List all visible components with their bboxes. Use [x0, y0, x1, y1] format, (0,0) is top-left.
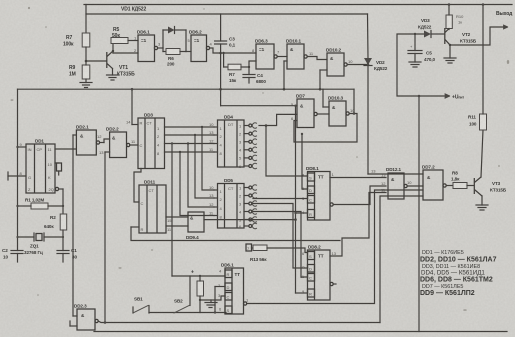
gate DD9.4 [188, 212, 204, 232]
counter DD11 [139, 185, 166, 233]
gate DD9.2 [191, 35, 207, 62]
resistor R10 on collector [446, 15, 452, 29]
DD4 input stubs [214, 126, 218, 128]
pin 9 input wire DD1 [18, 146, 27, 148]
wire: upper horizontal net from R7 top to VD2 column [86, 14, 368, 33]
node: VD2 cathode joins DD10.2 output net [367, 63, 370, 66]
node: VT1 collector to R5 and DD9.1 input [112, 50, 114, 52]
ground under VT2 emitter [444, 57, 456, 59]
gate DD7.2 [423, 170, 443, 200]
wire: DD11 C input from DD3 [134, 169, 141, 203]
node: rail to R7 post [85, 5, 87, 15]
DD11 output stubs to DD9.4 [166, 216, 188, 218]
wire: DD2.2 out to DD3 C [130, 144, 138, 146]
gate DD10.4 [388, 173, 404, 199]
node: C4 junction [248, 66, 250, 68]
flip-flop DD8.2 [308, 250, 331, 300]
wire: DD10.2 output to VD2 node [347, 64, 368, 66]
wire: long feedback net y=89.2 [18, 88, 355, 90]
diode VD3 [424, 31, 431, 38]
node: DD9.1 output split to VD1 and R6 [162, 30, 164, 48]
DD4 output hooks 0-5 [239, 123, 257, 169]
wire: vertical service net x172 [171, 144, 173, 277]
wire: DD8.1 D from DD4 row1 [302, 134, 308, 189]
wire: DD2.1 input1 from latch vertical [73, 134, 76, 136]
wire: button row [149, 312, 226, 314]
wire: DD11 R input and long bottom net [131, 226, 139, 228]
ground under VT1 emitter [107, 74, 119, 76]
gate DD2.3 [77, 309, 95, 330]
diode VD2 [367, 14, 370, 58]
wire: latch vertical x73 down to DD2.3 [72, 135, 74, 316]
wire: DD7.2 out through R8 [446, 185, 453, 187]
flip-flop DD6.1 [225, 268, 244, 314]
gate DD9.3 [256, 44, 274, 69]
quartz crystal ZQ1 [18, 236, 35, 238]
capacitor C4 [248, 67, 250, 75]
decoder DD5 [218, 184, 245, 229]
wire: DD8.2 D from DD5 [253, 204, 308, 269]
wire: DD8.1 R tap [296, 212, 308, 214]
resistor R12 [197, 281, 204, 296]
wire: DD7.1 in1 from C3 net [221, 105, 297, 107]
DD5 pin7 box and R13 [246, 244, 252, 251]
wire: DD9.4 output to reset net [204, 219, 296, 221]
wire: DD10.1 input 2 from feedback bus [284, 60, 287, 62]
capacitor C2 [17, 237, 19, 251]
DD1 inverted output bottom right [55, 187, 58, 190]
wire: DD3 output bus row4 [165, 151, 215, 153]
wire: C3 node down to DD4 strobe [220, 53, 222, 106]
wire: DD10.3 in1 from feedback bus [322, 89, 324, 107]
ground under VT3 [476, 204, 488, 206]
gate DD10.1 [287, 44, 304, 69]
node and drop wire to DD5 row1 [201, 126, 203, 128]
wire: DD1 pin11 output to DD2.1 [55, 148, 76, 150]
wire: DD7.1 out to DD10.3 [317, 113, 329, 115]
+U arrow terminal [444, 94, 450, 98]
wire: right vertical rail [418, 96, 420, 332]
resistor R9 [82, 65, 90, 79]
wire: DD6.1 D loop [215, 286, 225, 288]
decoder DD4 [218, 120, 245, 167]
wire: DD3 output bus row2 [165, 134, 215, 136]
gate DD7.1 [297, 99, 314, 128]
transistor VT2 [444, 28, 446, 44]
DD5 input stubs [214, 189, 218, 191]
transistor VT3 [473, 178, 475, 194]
wire: +supply top rail [84, 4, 512, 6]
wire: R12 bottom to DD6.1 C [200, 296, 225, 300]
gate DD10.3 [329, 101, 346, 126]
gate DD9.1 [138, 35, 155, 62]
gate DD2.2 [110, 132, 127, 158]
resistor R13 [253, 245, 267, 251]
node and drop wire to DD5 row3 [187, 142, 189, 144]
wire: DD2.2 in2 from DD2.3 output net [105, 151, 110, 153]
node and drop wire to DD5 row4 [179, 151, 181, 153]
ground tap [210, 300, 212, 303]
transistor VT1 [106, 52, 108, 68]
DD8.2 Qbar stub [330, 282, 333, 285]
wire: DD3 output bus row3 [165, 143, 215, 145]
wire: DD8.1 C from DD5 row [253, 198, 308, 200]
wire: DD8.2 Q feedback up to DD10.4 in3 [330, 193, 386, 257]
resistor R11 [480, 114, 487, 130]
wire: DD2.3 net up to DD7.2 input [380, 196, 423, 323]
gate DD2.1 [76, 130, 96, 155]
wire: DD8.1 S from DD4 row0 branch [266, 126, 308, 177]
diode VD1 [163, 29, 168, 31]
node: R7a tap [222, 52, 224, 54]
wire: DD6.1 Q output to DD7.2 [244, 302, 247, 305]
wire: bottom ground rail [94, 331, 507, 333]
DD5 output hooks [239, 185, 257, 229]
ground under C5 [409, 61, 421, 63]
node: C3 tap [219, 52, 222, 55]
wire: DD9.2 output to DD9.3 input [210, 48, 256, 53]
output wire and arrow [449, 44, 451, 46]
counter DD3 [138, 118, 165, 169]
wire: DD8.2 C from DD5 [253, 212, 308, 278]
wire: DD3 R input pin 14 [132, 124, 138, 126]
ground under R9 [80, 82, 92, 84]
wire: DD10.2 input 2 [320, 69, 327, 71]
wire: VD2 net into DD7.2 [368, 173, 423, 175]
resistor R7a 15k [223, 53, 225, 67]
wire: R12 supply row [172, 275, 225, 277]
sensor electrode stub [8, 175, 26, 177]
wire: base of VT1 [86, 60, 107, 62]
gate DD10.2 [327, 53, 344, 76]
supply +U wire [397, 34, 444, 96]
resistor R6 [166, 49, 180, 55]
small component on DD1 pin10 [55, 162, 59, 164]
capacitor C1 [62, 237, 64, 251]
wire: DD8.1 Q to DD10.4 in1 [330, 177, 386, 179]
wire: DD10.3 output node and loop back to DD7.1 in2 [294, 114, 357, 143]
wire: R net vertical [295, 106, 297, 293]
wire: DD10.4 out to DD7.2 [407, 185, 423, 187]
wire: DD8.1 Qbar to DD10.4 in2 [330, 203, 333, 206]
capacitor C5 [414, 33, 416, 35]
node and drop wire to DD5 row2 [194, 134, 196, 136]
flip-flop DD8.1 [308, 172, 331, 221]
wire: DD4 row0 up into DD7.1 in2 [265, 124, 268, 127]
resistor R2 [62, 189, 64, 214]
wire: DD2.3 inputs [73, 315, 77, 317]
wire: DD2.1 out into DD2.2 in1 [104, 139, 110, 143]
wire: DD2.3 output long bottom net [98, 321, 380, 323]
wire: DD10.1 out to DD10.2 [307, 57, 327, 60]
resistor R8 [453, 183, 467, 189]
wire: DD8.2 R common [296, 292, 308, 294]
wire: DD3 output bus row1 [165, 126, 215, 128]
wire: feedback bus end drops to DD10.3 output node [353, 89, 355, 113]
wire: left vertical net [17, 89, 19, 237]
capacitor C3 [220, 14, 222, 41]
chip DD1 K176IE5 [26, 144, 55, 193]
node: R7/R9/VT1 base junction [85, 60, 88, 63]
resistor R7 [82, 33, 90, 47]
resistor R5 [111, 38, 128, 44]
